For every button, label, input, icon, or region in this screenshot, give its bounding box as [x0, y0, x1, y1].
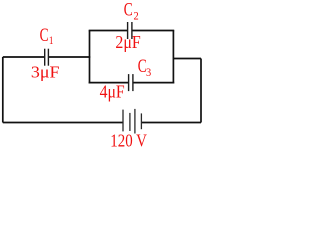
- capacitor C3 plates: [129, 74, 133, 91]
- svg-text:3μF: 3μF: [31, 63, 60, 82]
- wire right connector: [173, 58, 201, 60]
- node inner-left vertical edge: [89, 30, 91, 83]
- capacitor C2 plates: [128, 22, 132, 39]
- label C3: [138, 57, 151, 79]
- label C1: [40, 26, 54, 47]
- svg-text:4μF: 4μF: [100, 82, 125, 102]
- wire C1 to inner-left node: [49, 56, 90, 58]
- wire right edge: [200, 59, 202, 123]
- svg-text:3: 3: [146, 65, 151, 79]
- svg-text:120 V: 120 V: [110, 130, 147, 150]
- wire top-left segment to C1: [3, 56, 44, 58]
- svg-text:C: C: [40, 26, 49, 46]
- wire bottom right segment to battery: [142, 122, 201, 124]
- wire C3 to inner-right edge: [133, 82, 174, 84]
- wire left edge: [2, 57, 4, 123]
- wire C2 to inner-right edge: [132, 30, 174, 32]
- svg-text:C: C: [124, 0, 133, 20]
- label C2: [124, 0, 139, 22]
- svg-text:1: 1: [49, 33, 54, 47]
- node inner-right vertical edge: [172, 30, 174, 83]
- wire inner bottom to C3: [89, 82, 128, 84]
- wire inner top to C2: [89, 30, 127, 32]
- svg-text:2: 2: [134, 8, 139, 22]
- capacitor C1 plates: [45, 49, 49, 66]
- wire bottom left segment to battery: [3, 122, 123, 124]
- battery 120V plates: [123, 109, 141, 134]
- svg-text:2μF: 2μF: [115, 32, 140, 52]
